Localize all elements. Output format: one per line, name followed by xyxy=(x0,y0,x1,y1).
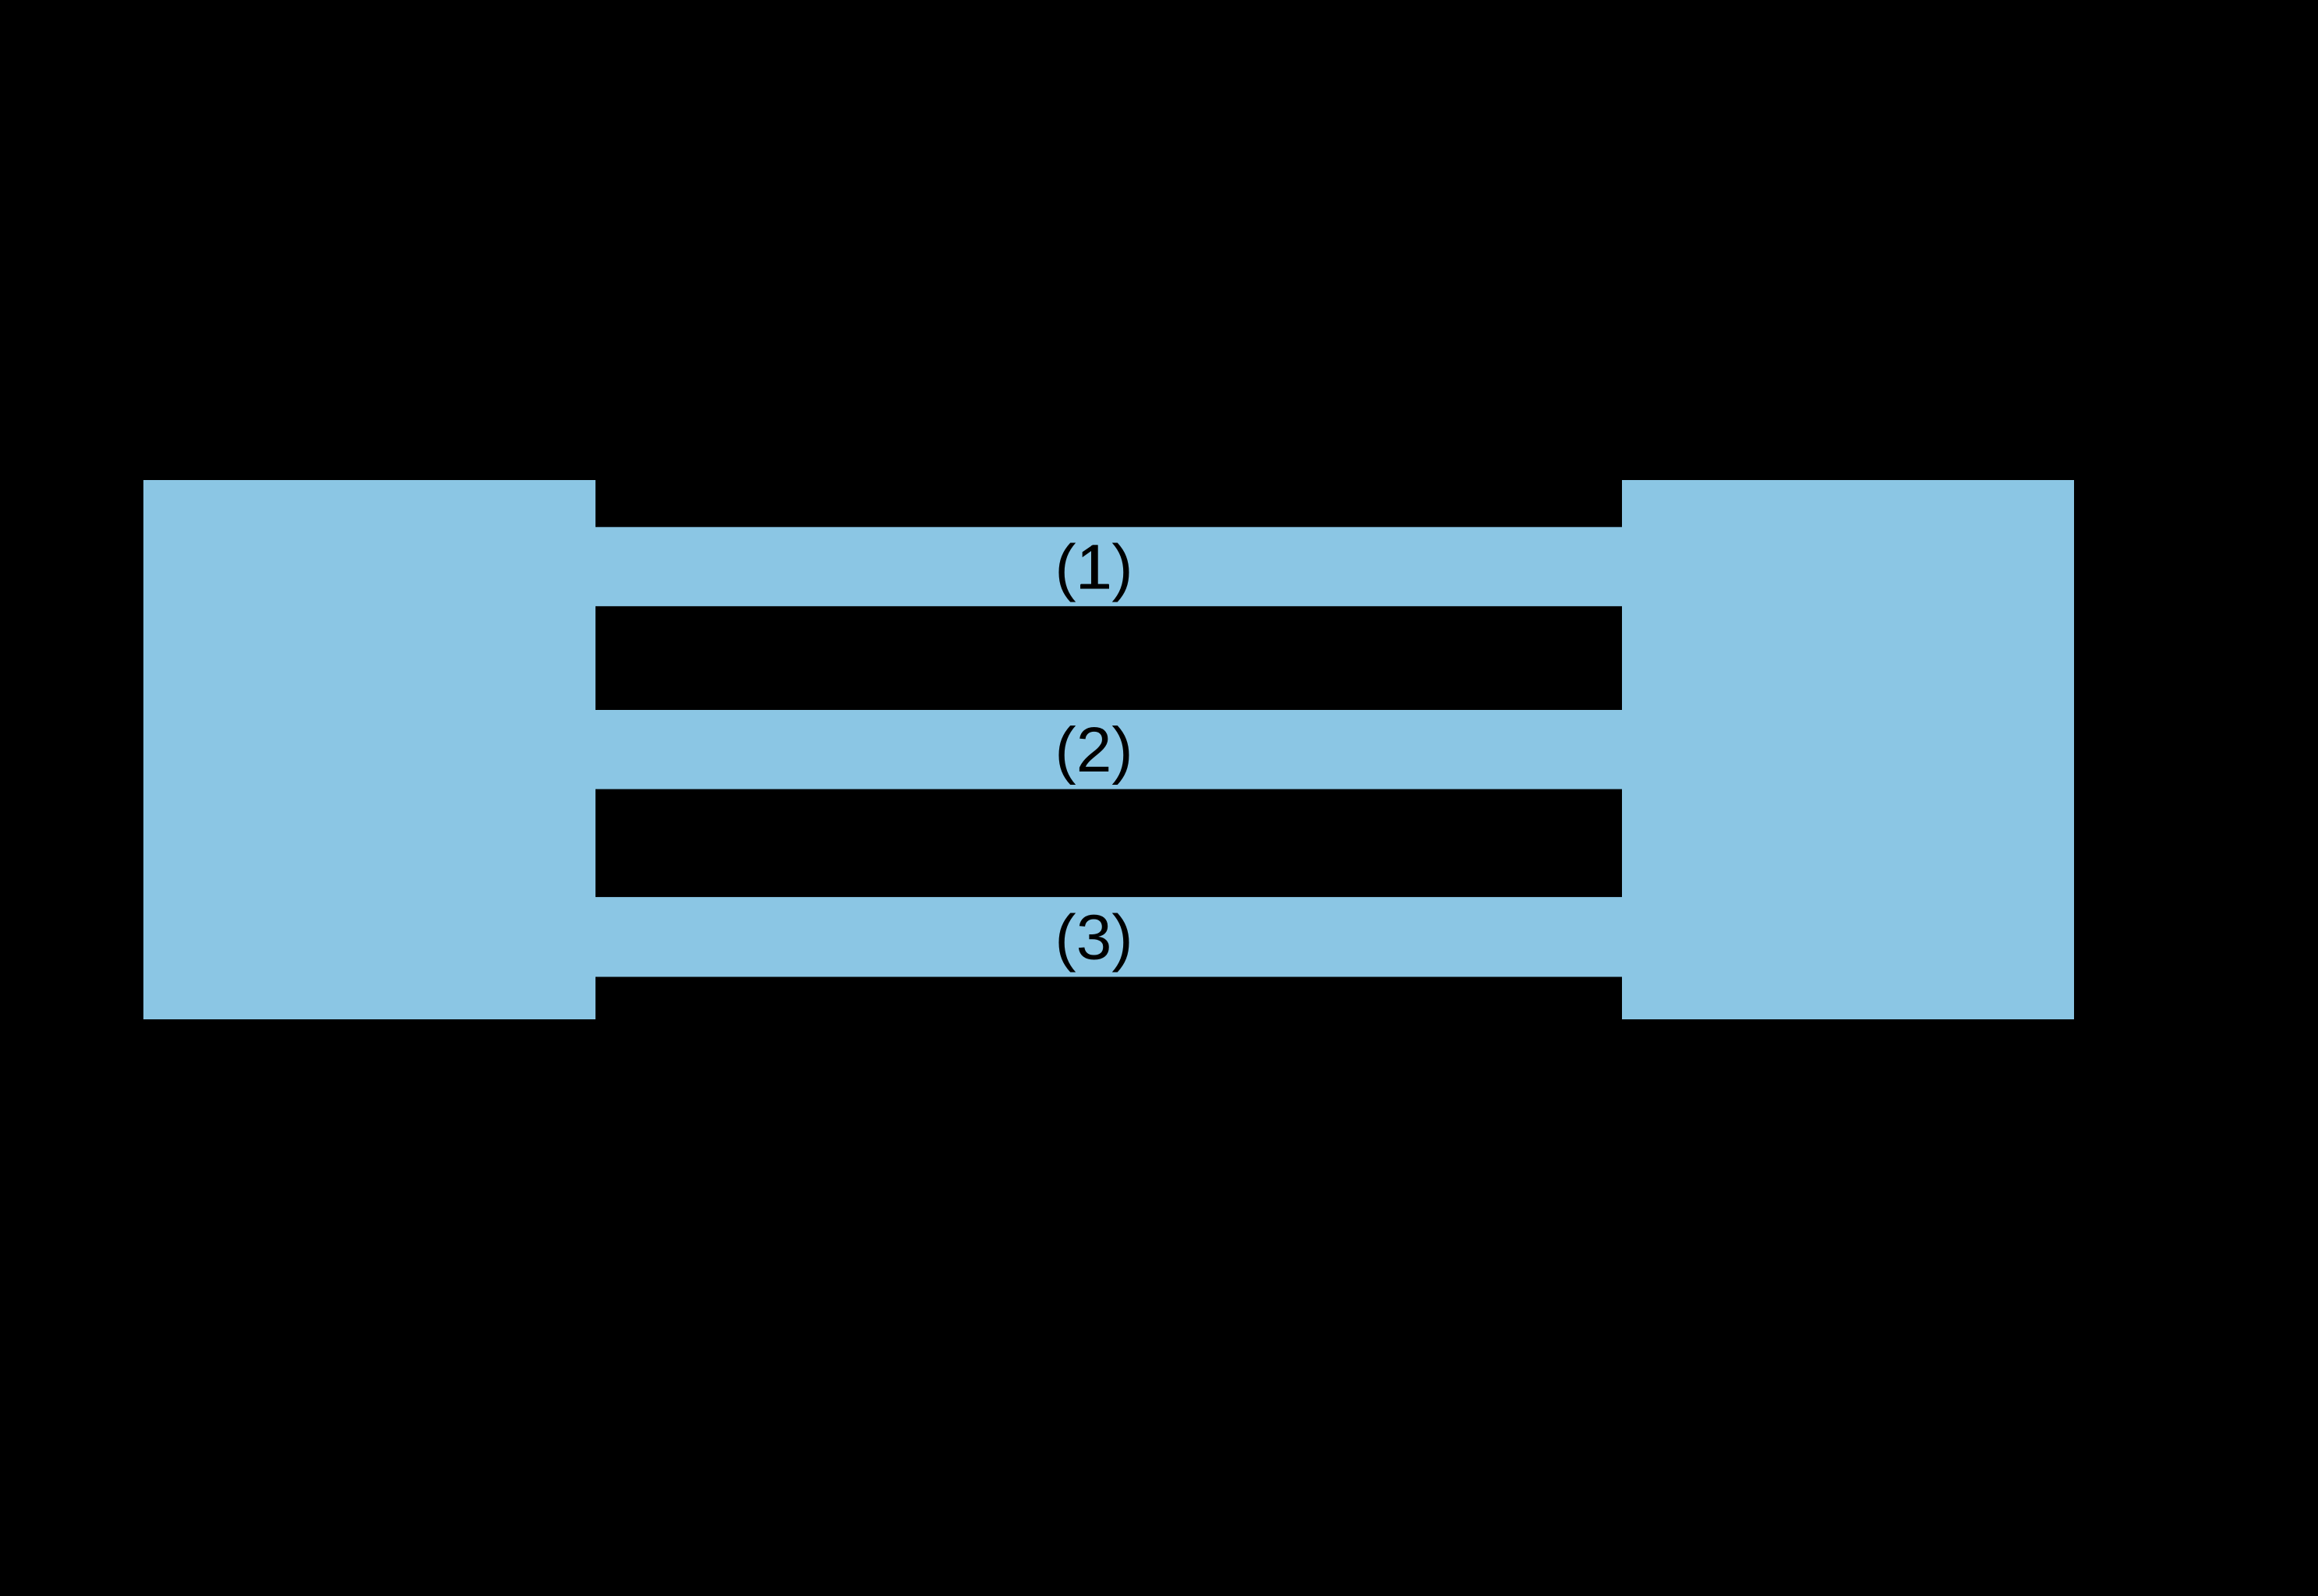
tube (3) xyxy=(595,897,1622,976)
label (1) digit foot serif xyxy=(1080,584,1109,589)
left reservoir block xyxy=(143,480,595,1019)
label (1) digit stem weight xyxy=(1091,546,1098,589)
right reservoir block xyxy=(1622,480,2074,1019)
tube (2) xyxy=(595,710,1622,789)
svg-text:(2): (2) xyxy=(1055,715,1132,786)
svg-text:(3): (3) xyxy=(1055,902,1132,973)
tube (1) xyxy=(595,527,1622,606)
